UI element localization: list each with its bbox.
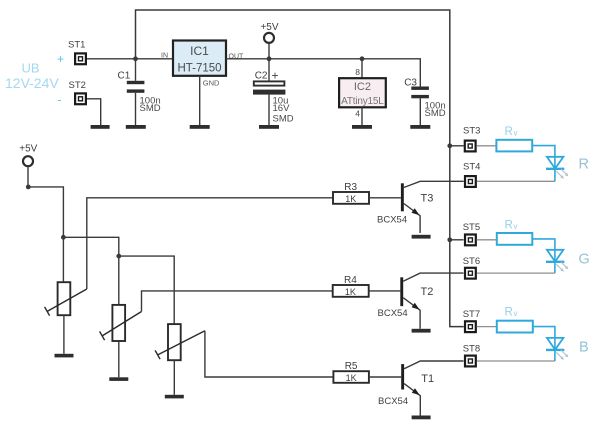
wire ST1 to IC1 IN: [87, 58, 173, 60]
resistor Rv (G): [497, 220, 533, 245]
svg-text:R3: R3: [344, 182, 357, 193]
label G (green channel): [579, 252, 590, 268]
svg-text:ST3: ST3: [463, 126, 480, 137]
svg-text:v: v: [514, 129, 518, 138]
potentiometer P3: [155, 324, 205, 395]
resistor R5 1K: [333, 361, 369, 383]
svg-text:16V: 16V: [273, 103, 291, 114]
svg-text:OUT: OUT: [229, 54, 245, 61]
node P2 branch: [61, 235, 66, 240]
svg-text:SMD: SMD: [273, 114, 294, 125]
terminal ST3: [463, 126, 480, 152]
wire rail to ST5: [450, 239, 464, 241]
terminal ST8: [463, 344, 480, 367]
svg-text:+: +: [272, 69, 279, 83]
terminal ST1: [68, 40, 86, 65]
terminal ST2: [69, 80, 86, 104]
ground C2: [259, 125, 279, 129]
op-amp IC2 ATtiny15L: [339, 78, 386, 107]
svg-text:SMD: SMD: [140, 103, 161, 114]
svg-text:R: R: [505, 220, 513, 232]
wire Rv to LED R anode: [532, 146, 555, 157]
svg-text:4: 4: [355, 109, 360, 119]
svg-text:R: R: [505, 126, 513, 138]
wire IC1 GND to ground: [199, 76, 201, 125]
svg-text:v: v: [514, 309, 518, 318]
svg-text:IC1: IC1: [190, 44, 209, 58]
wire R5 to T1 base: [369, 376, 401, 378]
node IN junction (C1 / top rail): [133, 56, 138, 61]
svg-text:G: G: [579, 252, 590, 268]
node ST3 junction on UB rail: [447, 143, 452, 148]
svg-text:+5V: +5V: [260, 22, 278, 33]
wire branch to P3 top: [119, 256, 174, 324]
ground T1: [412, 416, 431, 420]
svg-text:IN: IN: [161, 53, 168, 60]
wire LED G cathode to ST6: [477, 272, 555, 274]
transistor T3 BCX54: [377, 181, 464, 233]
ground P1: [55, 354, 74, 358]
terminal ST7: [463, 309, 480, 332]
ground T3: [412, 235, 431, 239]
resistor Rv (R): [496, 126, 532, 151]
wire P2 wiper to R4: [142, 291, 333, 312]
terminal ST5: [463, 222, 480, 245]
svg-text:T1: T1: [421, 373, 434, 385]
node IC2 supply junction: [360, 56, 365, 61]
svg-text:+5V: +5V: [19, 144, 37, 155]
wire rail to ST3: [450, 145, 464, 147]
node +5V corner: [26, 185, 31, 190]
label - (UB minus): [58, 93, 62, 107]
capacitor C3: [404, 78, 446, 126]
svg-text:IC2: IC2: [354, 81, 371, 93]
svg-text:HT-7150: HT-7150: [177, 62, 221, 74]
ground IC1: [190, 125, 210, 129]
capacitor C2 (polarized): [253, 59, 294, 125]
wire IC2 pin 4 to ground: [355, 107, 362, 125]
wire ST2 to ground: [87, 99, 101, 125]
transistor T1 BCX54: [378, 361, 464, 416]
ground P2: [109, 377, 128, 381]
wire IC2 pin 8: [355, 59, 362, 78]
wire ST3 to Rv (R): [477, 145, 497, 147]
svg-text:C3: C3: [404, 78, 417, 89]
node +5V junction at C2: [267, 56, 272, 61]
svg-text:BCX54: BCX54: [378, 308, 408, 319]
svg-text:R: R: [579, 157, 589, 173]
wire UB top rail: up from IN node, across top, down right side to ST7: [136, 10, 464, 327]
svg-text:T2: T2: [421, 286, 434, 298]
LED B: [546, 338, 568, 361]
LED G: [546, 250, 568, 273]
resistor R4 1K: [333, 275, 369, 297]
label + (UB plus): [57, 52, 64, 66]
svg-text:ATtiny15L: ATtiny15L: [341, 96, 384, 107]
wire LED B cathode to ST8: [477, 360, 555, 362]
label R (red channel): [579, 157, 589, 173]
svg-text:UB: UB: [22, 61, 40, 76]
label B (blue channel): [579, 340, 589, 356]
wire +5V to P1 top: [28, 187, 63, 282]
svg-text:ST6: ST6: [463, 256, 480, 267]
svg-text:ST4: ST4: [463, 162, 480, 173]
svg-text:8: 8: [355, 67, 360, 77]
svg-text:B: B: [579, 340, 589, 356]
node P3 branch: [116, 254, 121, 259]
wire R3 to T3 base: [369, 197, 401, 199]
resistor Rv (B): [497, 307, 533, 333]
svg-text:SMD: SMD: [425, 108, 446, 119]
power +5V (top): [260, 22, 278, 59]
svg-text:-: -: [58, 93, 62, 107]
LED R: [546, 157, 568, 182]
svg-text:ST1: ST1: [68, 40, 85, 51]
svg-text:ST5: ST5: [463, 222, 480, 233]
wire Rv to LED G anode: [532, 239, 555, 250]
svg-text:R: R: [505, 307, 513, 319]
ground ST2: [91, 125, 110, 129]
svg-text:BCX54: BCX54: [377, 215, 407, 226]
pin label GND: [203, 79, 220, 88]
transistor T2 BCX54: [378, 273, 464, 329]
op-amp IC1 regulator HT-7150: [173, 41, 226, 76]
wire R4 to T2 base: [369, 290, 401, 292]
wire ST7 to Rv (B): [477, 326, 497, 328]
svg-text:12V-24V: 12V-24V: [5, 75, 59, 91]
wire P3 wiper to R5: [205, 331, 334, 377]
terminal ST6: [463, 256, 480, 279]
wire ST5 to Rv (G): [477, 239, 497, 241]
capacitor C1: [118, 59, 161, 125]
svg-text:R5: R5: [345, 361, 358, 372]
node ST5 junction on UB rail: [447, 237, 452, 242]
pin label OUT: [229, 54, 245, 61]
ground T2: [412, 329, 431, 333]
svg-text:1K: 1K: [346, 373, 357, 383]
wire P1 wiper to R3: [87, 198, 333, 289]
svg-text:C1: C1: [118, 71, 131, 82]
ground IC2: [352, 125, 372, 129]
wire branch to P2 top: [63, 237, 118, 305]
ground P3: [165, 395, 184, 399]
wire Rv to LED B anode: [533, 327, 555, 338]
svg-text:ST8: ST8: [463, 344, 480, 355]
power +5V (left): [19, 144, 37, 187]
potentiometer P1: [45, 282, 87, 354]
potentiometer P2: [100, 305, 142, 377]
pin label IN: [161, 53, 168, 60]
wire IC1 OUT +5V net: [226, 59, 420, 87]
svg-text:GND: GND: [203, 79, 220, 88]
label UB 12V-24V: [5, 61, 59, 92]
svg-text:R4: R4: [344, 275, 357, 286]
svg-text:ST2: ST2: [69, 80, 86, 91]
svg-text:1K: 1K: [345, 194, 356, 204]
svg-text:+: +: [57, 52, 64, 66]
wire LED R cathode to ST4: [477, 180, 555, 182]
svg-text:1K: 1K: [345, 287, 356, 297]
ground C1: [126, 125, 146, 129]
svg-text:ST7: ST7: [463, 309, 480, 320]
svg-text:C2: C2: [255, 71, 268, 82]
terminal ST4: [463, 162, 480, 187]
svg-text:T3: T3: [421, 193, 434, 205]
svg-text:BCX54: BCX54: [378, 396, 408, 407]
ground C3: [410, 125, 430, 129]
svg-text:v: v: [514, 222, 518, 231]
resistor R3 1K: [333, 182, 369, 204]
